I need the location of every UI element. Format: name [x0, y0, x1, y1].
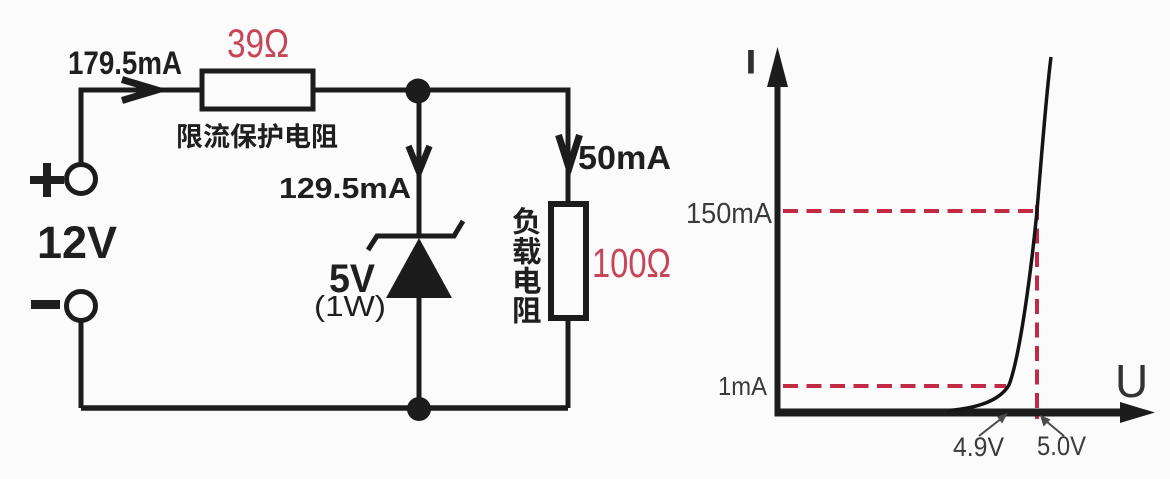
svg-text:U: U [1115, 355, 1148, 407]
minus sign [31, 300, 60, 309]
bottom wire [81, 405, 568, 411]
svg-text:150mA: 150mA [686, 198, 773, 230]
wire load resistor to bottom [566, 318, 571, 408]
svg-text:I: I [747, 44, 756, 80]
node junction bottom [407, 397, 431, 421]
resistor R1 (39 ohm) [202, 71, 313, 109]
label 限流保护电阻 [178, 123, 337, 148]
svg-text:39Ω: 39Ω [227, 22, 289, 66]
dashed line 5.0V vertical [1035, 205, 1039, 419]
current arrow 50mA down [559, 135, 580, 168]
svg-text:4.9V: 4.9V [953, 432, 1004, 462]
svg-text:1mA: 1mA [718, 371, 768, 401]
terminal + circle [67, 165, 96, 194]
load resistor R2 [551, 204, 586, 318]
U axis arrowhead [1120, 402, 1155, 423]
svg-text:50mA: 50mA [578, 139, 671, 176]
zener diode D1 cathode bar [368, 221, 463, 250]
svg-text:100Ω: 100Ω [592, 240, 671, 286]
svg-text:129.5mA: 129.5mA [279, 173, 411, 205]
graph U axis [775, 409, 1126, 417]
pointer arrow to 5.0V [1046, 421, 1064, 436]
svg-text:5.0V: 5.0V [1037, 431, 1086, 461]
current arrow 179.5mA on top wire [122, 80, 157, 101]
wire resistor R1 to right corner [313, 90, 568, 203]
wire zener branch upper [417, 90, 422, 234]
node junction top [406, 79, 431, 104]
pointer arrow to 4.9V [979, 418, 1002, 436]
I axis arrowhead [767, 47, 788, 87]
diode IV curve [948, 57, 1051, 411]
svg-text:(1W): (1W) [314, 291, 386, 323]
wire top from + terminal to resistor R1 [81, 90, 202, 163]
current arrow 129.5mA down [409, 146, 430, 172]
dashed line 150mA level [783, 209, 1037, 213]
svg-text:12V: 12V [37, 217, 117, 268]
graph I axis [775, 80, 781, 416]
terminal - circle [67, 292, 96, 321]
wire - terminal to bottom [79, 320, 84, 408]
plus sign [30, 163, 64, 197]
wire zener branch lower [417, 298, 422, 408]
svg-text:179.5mA: 179.5mA [68, 45, 182, 81]
dashed line 1mA level [783, 384, 1006, 388]
label 负载电阻 vertical [513, 207, 541, 324]
zener diode D1 triangle [386, 238, 452, 298]
